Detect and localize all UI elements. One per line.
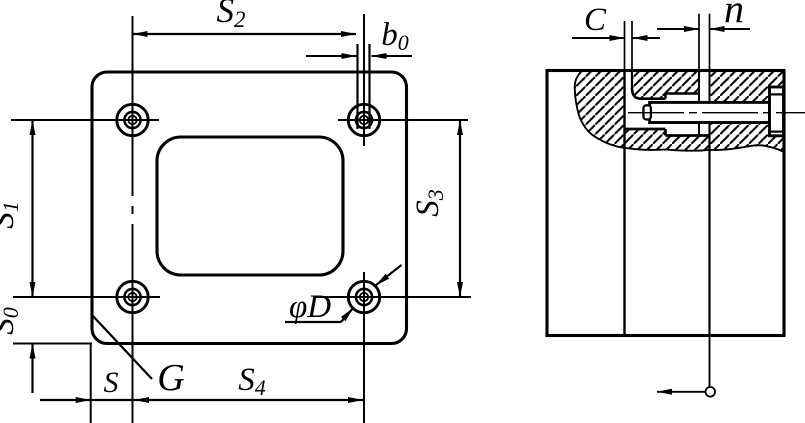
svg-text:G: G [157, 357, 184, 399]
svg-text:S: S [104, 366, 119, 399]
svg-text:C: C [584, 2, 607, 38]
svg-text:φD: φD [289, 289, 331, 325]
svg-text:n: n [724, 0, 744, 31]
svg-text:S0: S0 [0, 307, 23, 335]
svg-text:S1: S1 [0, 201, 23, 229]
